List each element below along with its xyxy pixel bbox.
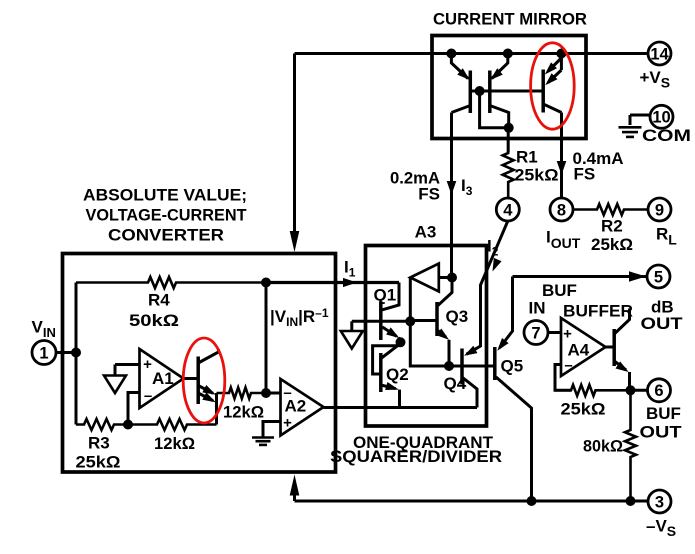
svg-text:25kΩ: 25kΩ (515, 166, 559, 185)
svg-text:R3: R3 (88, 434, 110, 453)
svg-text:8: 8 (557, 201, 566, 219)
svg-text:+: + (283, 415, 292, 432)
svg-text:Q1: Q1 (374, 286, 397, 305)
svg-text:–: – (564, 357, 572, 374)
svg-text:CONVERTER: CONVERTER (108, 226, 224, 245)
svg-text:50kΩ: 50kΩ (129, 311, 179, 330)
svg-text:CURRENT MIRROR: CURRENT MIRROR (433, 10, 587, 29)
svg-text:3: 3 (655, 493, 664, 511)
svg-text:OUT: OUT (641, 314, 684, 333)
svg-text:A4: A4 (568, 341, 590, 360)
svg-text:14: 14 (650, 45, 669, 63)
svg-text:25kΩ: 25kΩ (76, 453, 121, 472)
svg-text:12kΩ: 12kΩ (223, 403, 264, 422)
svg-text:R4: R4 (148, 291, 170, 310)
svg-text:80kΩ: 80kΩ (583, 437, 623, 456)
svg-text:4: 4 (503, 201, 513, 219)
svg-text:IN: IN (529, 299, 546, 318)
svg-text:A1: A1 (152, 369, 174, 388)
svg-text:10: 10 (652, 109, 670, 127)
svg-text:Q5: Q5 (501, 357, 524, 376)
svg-text:FS: FS (418, 185, 440, 204)
svg-text:1: 1 (39, 344, 48, 362)
svg-text:OUT: OUT (640, 423, 683, 442)
svg-text:9: 9 (655, 201, 664, 219)
svg-text:5: 5 (654, 268, 663, 286)
svg-text:7: 7 (531, 324, 540, 342)
svg-text:R1: R1 (516, 148, 538, 167)
svg-text:R2: R2 (601, 217, 623, 236)
svg-text:Q2: Q2 (386, 365, 409, 384)
svg-text:25kΩ: 25kΩ (561, 400, 606, 419)
svg-text:COM: COM (642, 126, 691, 145)
svg-text:BUF: BUF (646, 404, 681, 423)
svg-text:A3: A3 (415, 223, 437, 242)
svg-text:SQUARER/DIVIDER: SQUARER/DIVIDER (330, 447, 502, 466)
svg-text:ABSOLUTE VALUE;: ABSOLUTE VALUE; (83, 186, 247, 205)
svg-text:A2: A2 (285, 397, 307, 416)
svg-text:+: + (143, 356, 152, 373)
svg-text:25kΩ: 25kΩ (591, 235, 633, 254)
svg-text:FS: FS (574, 165, 596, 184)
svg-text:Q3: Q3 (446, 307, 469, 326)
svg-text:12kΩ: 12kΩ (154, 434, 195, 453)
svg-text:–: – (144, 388, 152, 405)
svg-text:BUF: BUF (542, 281, 577, 300)
svg-text:VOLTAGE-CURRENT: VOLTAGE-CURRENT (86, 206, 248, 225)
svg-text:BUFFER: BUFFER (563, 302, 633, 321)
svg-text:6: 6 (654, 382, 663, 400)
